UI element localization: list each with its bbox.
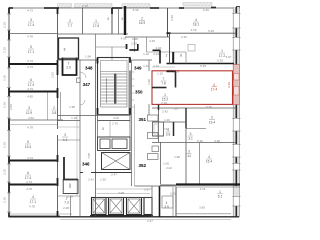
thick black vertical wall x125 top: [124, 6, 126, 35]
top right divider vertical: [167, 8, 169, 37]
outer top wall: [9, 7, 241, 9]
svg-text:18.1: 18.1: [193, 23, 199, 27]
room below vestibule: [98, 121, 131, 138]
wall x186: [185, 108, 187, 184]
svg-text:3: 3: [121, 17, 123, 21]
svg-text:2.47: 2.47: [111, 172, 117, 176]
dark storage room in corridor: [63, 58, 77, 76]
svg-text:2.28: 2.28: [63, 206, 69, 210]
svg-text:2.96: 2.96: [170, 15, 174, 21]
left column: thick wall D: [9, 184, 57, 186]
strong wall y184: [176, 183, 240, 185]
svg-text:2: 2: [211, 116, 213, 120]
svg-text:2.04: 2.04: [156, 46, 162, 50]
svg-text:6.40: 6.40: [203, 8, 209, 12]
svg-text:4.73: 4.73: [27, 87, 33, 91]
divider x206: [199, 143, 201, 185]
svg-text:6.1: 6.1: [218, 194, 223, 198]
big X shaft: [102, 153, 131, 170]
outer bottom wall: [9, 216, 239, 218]
svg-text:3.85: 3.85: [199, 206, 205, 210]
corridor top wall: [58, 59, 98, 61]
svg-text:16.9: 16.9: [139, 21, 145, 25]
vertical walls below red: [158, 105, 160, 142]
svg-text:4.78: 4.78: [26, 187, 32, 191]
svg-text:4.16: 4.16: [200, 187, 206, 191]
svg-text:2.50: 2.50: [131, 42, 137, 46]
svg-text:1.10: 1.10: [143, 64, 149, 68]
svg-text:1.10: 1.10: [157, 72, 163, 76]
svg-text:2.76: 2.76: [82, 4, 88, 8]
svg-text:3: 3: [30, 18, 32, 22]
svg-text:4.73: 4.73: [27, 156, 33, 160]
svg-text:3.8: 3.8: [52, 111, 57, 115]
top centre block: wall y34: [58, 33, 129, 35]
svg-text:3.38: 3.38: [214, 139, 220, 143]
svg-text:1.46: 1.46: [164, 118, 170, 122]
bottom right room: [175, 187, 177, 217]
balcony hatch strip top 1: [58, 4, 72, 7]
svg-text:7.7: 7.7: [68, 24, 73, 28]
svg-text:2.78: 2.78: [67, 195, 73, 199]
svg-text:7.08: 7.08: [87, 153, 91, 159]
svg-text:347: 347: [83, 82, 91, 87]
svg-text:350: 350: [135, 89, 143, 94]
svg-text:3: 3: [190, 132, 192, 136]
svg-text:2.02: 2.02: [113, 116, 119, 120]
bottom centre apartment: [159, 186, 161, 217]
svg-text:2.10: 2.10: [3, 47, 7, 53]
svg-text:1.10: 1.10: [143, 52, 149, 56]
svg-text:1: 1: [95, 19, 97, 23]
svg-text:17.4: 17.4: [28, 23, 34, 27]
svg-text:1: 1: [164, 93, 166, 97]
svg-text:2.67: 2.67: [144, 188, 150, 192]
svg-text:4.73: 4.73: [27, 65, 33, 69]
svg-text:4: 4: [32, 195, 34, 199]
svg-text:5.36: 5.36: [206, 105, 212, 109]
svg-text:3: 3: [107, 17, 109, 21]
room labels: [25, 17, 225, 209]
thick wall x173.5 flat351: [173, 122, 175, 136]
door arc corridor: [80, 72, 86, 78]
left column: thick wall C: [9, 160, 57, 162]
svg-text:17.4: 17.4: [211, 88, 218, 92]
svg-text:6: 6: [27, 171, 29, 175]
svg-text:5.39: 5.39: [133, 8, 139, 12]
svg-text:6.35: 6.35: [217, 59, 223, 63]
stair central divider: [114, 74, 116, 104]
wall y37 top right: [125, 36, 170, 38]
vertical wall x169.5: [169, 33, 171, 63]
stair flight treads: [101, 72, 128, 108]
wall y108 below red: [152, 107, 236, 109]
svg-text:4.03: 4.03: [121, 36, 127, 40]
svg-text:3.1: 3.1: [188, 137, 193, 141]
svg-text:2.10: 2.10: [3, 75, 7, 81]
svg-text:2.42: 2.42: [162, 110, 168, 114]
svg-text:7.8: 7.8: [161, 82, 166, 86]
svg-text:17.2: 17.2: [219, 54, 225, 58]
machine boxes: [98, 137, 131, 151]
wall y142: [152, 142, 236, 144]
svg-text:17.6: 17.6: [93, 24, 99, 28]
svg-text:346: 346: [82, 161, 90, 166]
svg-text:7.20: 7.20: [172, 107, 178, 111]
svg-text:17.4: 17.4: [28, 83, 34, 87]
elevator shafts: [92, 198, 153, 215]
stair landing inner: [101, 61, 128, 72]
svg-text:7.08: 7.08: [118, 191, 124, 195]
svg-text:8: 8: [180, 54, 182, 58]
svg-text:1: 1: [219, 190, 221, 194]
left column: thick flat boundary wall A: [9, 63, 58, 65]
svg-text:4.25: 4.25: [149, 39, 155, 43]
svg-text:4: 4: [195, 18, 197, 22]
svg-text:1: 1: [221, 49, 223, 53]
svg-text:17.1: 17.1: [30, 200, 36, 204]
svg-text:5.35: 5.35: [200, 64, 206, 68]
thick L wall small room: [129, 49, 138, 51]
top centre block: divider: [82, 8, 84, 34]
svg-text:2.02: 2.02: [166, 166, 172, 170]
svg-text:3.8: 3.8: [166, 133, 171, 137]
door rect flat352: [152, 146, 159, 152]
inner walls right of bathroom: [95, 34, 97, 60]
svg-text:2.24: 2.24: [153, 52, 159, 56]
main vertical wall x57.5: [57, 8, 59, 217]
svg-text:3: 3: [188, 150, 190, 154]
left column: thick flat boundary wall B: [9, 91, 58, 93]
stair core outer box: [98, 58, 131, 116]
black wall segment over red top: [167, 70, 177, 72]
svg-text:5: 5: [102, 127, 104, 131]
svg-text:2.76: 2.76: [112, 122, 118, 126]
balcony hatch strip top 4: [183, 3, 212, 6]
svg-text:1.98: 1.98: [174, 155, 180, 159]
svg-text:5: 5: [30, 45, 32, 49]
svg-text:3.19: 3.19: [227, 82, 231, 88]
svg-text:0.98: 0.98: [132, 37, 138, 41]
corridor right of core: [131, 60, 133, 186]
svg-text:2.29: 2.29: [161, 101, 167, 105]
left column: thin double wall: [9, 119, 63, 121]
dim line above red room: [152, 66, 175, 68]
svg-text:2.02: 2.02: [51, 72, 55, 78]
svg-text:4.73: 4.73: [27, 9, 33, 13]
svg-text:3.62: 3.62: [28, 116, 34, 120]
svg-text:2.42: 2.42: [181, 35, 187, 39]
thick wall seg x152-160: [153, 49, 161, 51]
red room outer wall pink band: [233, 65, 239, 105]
top centre small rooms dividers: [111, 8, 113, 34]
svg-text:17.1: 17.1: [28, 50, 34, 54]
svg-text:4: 4: [208, 155, 210, 159]
thick short wall x173: [172, 52, 174, 63]
svg-text:4.78: 4.78: [27, 126, 33, 130]
red room inner wall horizontal: [152, 87, 167, 89]
svg-text:352: 352: [139, 163, 147, 168]
svg-text:2.0: 2.0: [66, 66, 71, 70]
left column: wall room1/room2: [9, 33, 58, 35]
svg-text:3.19: 3.19: [191, 28, 197, 32]
elevator lobby walls: [80, 172, 132, 174]
svg-text:2.41: 2.41: [88, 177, 94, 181]
svg-text:2.10: 2.10: [3, 22, 7, 28]
corridor cross walls: [58, 115, 98, 117]
svg-text:5.26: 5.26: [208, 29, 214, 33]
stair arrow line: [106, 78, 108, 103]
svg-text:19.4: 19.4: [25, 145, 31, 149]
svg-text:5: 5: [69, 183, 71, 187]
svg-text:4.78: 4.78: [27, 35, 33, 39]
top right block wall y63.5: [167, 63, 235, 65]
svg-text:7.3: 7.3: [64, 201, 69, 205]
svg-text:351: 351: [139, 117, 147, 122]
svg-text:1.10: 1.10: [71, 116, 77, 120]
dimension texts: [3, 4, 224, 223]
wall y136: [152, 135, 164, 137]
wall y33 right part: [170, 32, 237, 34]
right wall window gaps: [234, 14, 239, 206]
svg-text:5.36: 5.36: [197, 139, 203, 143]
wc fixture: [188, 45, 195, 52]
balcony hatch strip top 2: [75, 4, 113, 7]
svg-text:6: 6: [30, 78, 32, 82]
svg-text:2.10: 2.10: [3, 197, 7, 203]
svg-text:3: 3: [64, 133, 66, 137]
svg-text:1.35: 1.35: [100, 177, 106, 181]
svg-text:4.73: 4.73: [26, 180, 32, 184]
svg-text:1.98: 1.98: [69, 105, 75, 109]
svg-text:5: 5: [27, 140, 29, 144]
svg-text:2: 2: [69, 19, 71, 23]
svg-text:4.85: 4.85: [27, 95, 33, 99]
svg-text:1.98: 1.98: [147, 79, 151, 85]
svg-text:2.67: 2.67: [163, 127, 169, 131]
svg-text:2: 2: [166, 54, 168, 58]
svg-text:2.02: 2.02: [170, 192, 176, 196]
outer left wall: [8, 8, 10, 217]
svg-text:2.06: 2.06: [9, 104, 13, 110]
svg-text:3: 3: [28, 106, 30, 110]
svg-text:4.73: 4.73: [27, 59, 33, 63]
svg-text:3.9: 3.9: [164, 205, 169, 209]
svg-text:12.9: 12.9: [26, 111, 32, 115]
svg-text:348: 348: [85, 66, 93, 71]
svg-text:19.4: 19.4: [209, 120, 215, 124]
svg-text:1.94: 1.94: [85, 55, 91, 59]
svg-text:7: 7: [163, 77, 165, 81]
svg-text:2.47: 2.47: [147, 219, 153, 223]
svg-text:4.4: 4.4: [63, 138, 68, 142]
svg-text:2.10: 2.10: [3, 142, 7, 148]
mid-left small rooms: [58, 139, 81, 141]
svg-text:14: 14: [187, 154, 191, 158]
svg-text:2.10: 2.10: [3, 169, 7, 175]
svg-text:2: 2: [53, 106, 55, 110]
elevator X marks: [93, 199, 140, 213]
red room outline: [152, 71, 233, 105]
left column: faint divider: [47, 93, 49, 121]
corridor walls left of core: [79, 60, 81, 216]
bathroom box 351: [153, 122, 164, 136]
svg-text:4.78: 4.78: [29, 205, 35, 209]
flat 351 interior: wall y122: [152, 121, 186, 123]
svg-text:2: 2: [141, 17, 143, 21]
vestibule below stairs: [98, 115, 131, 121]
small rooms dividers top right: [135, 37, 187, 64]
left wall window ticks: [7, 14, 11, 212]
svg-text:2.24: 2.24: [153, 64, 159, 68]
bathroom box top-centre: [59, 38, 79, 59]
corridor doors right side: [148, 115, 159, 160]
svg-text:349: 349: [134, 65, 142, 70]
svg-text:8: 8: [64, 48, 66, 52]
svg-text:2.10: 2.10: [3, 102, 7, 108]
balcony hatch strip top 3: [122, 4, 150, 7]
junction blobs on x57.5: [57, 8, 59, 217]
outer right wall band: [233, 7, 239, 217]
svg-text:4: 4: [213, 83, 215, 87]
small room line y128.3: [186, 127, 206, 129]
svg-text:16.9: 16.9: [173, 69, 180, 73]
red room inner wall vertical: [175, 71, 177, 88]
svg-text:5.07: 5.07: [226, 55, 232, 59]
svg-text:15.4: 15.4: [206, 160, 212, 164]
